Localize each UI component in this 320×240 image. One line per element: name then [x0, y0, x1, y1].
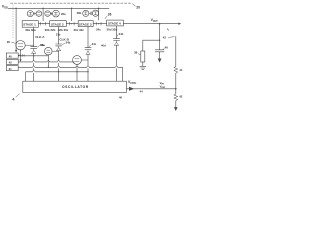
- svg-text:20: 20: [136, 5, 140, 9]
- node VDD label: [2, 5, 8, 10]
- svg-text:40: 40: [9, 54, 13, 58]
- svg-text:OSCILLATOR: OSCILLATOR: [62, 85, 89, 89]
- label VFB: [160, 81, 165, 86]
- label 42: [179, 95, 183, 99]
- arrowhead VOUT: [178, 23, 181, 25]
- label 34c: [92, 42, 97, 46]
- stage box 3: [78, 21, 93, 27]
- clock bus A: [18, 55, 48, 57]
- svg-text:26: 26: [7, 40, 11, 44]
- ground arrow load: [174, 107, 178, 111]
- leader to reference 20: [132, 4, 135, 7]
- capacitor C34b: [56, 44, 62, 46]
- clock driver box 25: [6, 66, 18, 71]
- arrowhead into box 22: [15, 50, 17, 53]
- wire stage2-stage3: [66, 23, 78, 25]
- svg-text:31a: 31a: [40, 43, 45, 47]
- svg-text:21: 21: [9, 67, 13, 71]
- svg-text:34d: 34d: [119, 32, 124, 36]
- stage box 1: [22, 21, 38, 28]
- svg-text:31b: 31b: [56, 33, 61, 37]
- capacitor C34c: [85, 48, 91, 50]
- svg-text:30c 32c: 30c 32c: [74, 28, 85, 32]
- svg-text:STAGE 2: STAGE 2: [51, 22, 64, 26]
- labels under stage boxes: [25, 28, 117, 33]
- label CLK B: [59, 38, 69, 42]
- svg-text:34c: 34c: [92, 42, 97, 46]
- junction on VDD rail x43: [42, 8, 43, 9]
- wire stage3-stage4: [93, 23, 106, 25]
- clock driver box 22: [6, 53, 18, 58]
- svg-text:VCTRL: VCTRL: [128, 80, 137, 85]
- capacitor C34d: [114, 39, 120, 41]
- wire circle 26c to C34c node: [81, 59, 88, 61]
- capacitor C40: [155, 50, 164, 52]
- wire stage1-stage2: [38, 23, 49, 25]
- svg-text:iL: iL: [167, 27, 170, 32]
- feedback line VCTRL: [126, 88, 175, 90]
- capacitor C34a stem: [33, 27, 35, 47]
- svg-text:4: 4: [12, 97, 15, 102]
- svg-text:28a: 28a: [61, 12, 66, 16]
- label 34d: [119, 32, 124, 36]
- label 40 with leader: [165, 45, 169, 49]
- inter-stage node symbols gap3: [96, 22, 101, 25]
- label 40d: [101, 43, 106, 47]
- label 24: [22, 53, 26, 57]
- clock bus C with hops: [18, 67, 122, 81]
- svg-text:34b: 34b: [66, 40, 71, 44]
- inter-stage node symbols gap2: [69, 22, 74, 25]
- stage box 2: [50, 21, 67, 27]
- label 46 under oscillator: [119, 96, 122, 100]
- label VOUT: [151, 18, 159, 23]
- node vertical between stage1/stage2: [42, 8, 44, 20]
- label CLK A: [35, 35, 45, 39]
- label 36 with leader: [108, 13, 112, 17]
- plus joint pair 1: [34, 13, 36, 15]
- junction on VDD rail x16: [15, 8, 16, 9]
- label 41: [179, 68, 183, 72]
- svg-text:VOUT: VOUT: [151, 18, 159, 23]
- svg-text:24: 24: [22, 53, 26, 57]
- label 31b: [56, 33, 61, 37]
- label 38 with leader: [134, 51, 138, 55]
- arrowhead on feedback line: [129, 87, 134, 91]
- gate symbol between pair 2: [89, 12, 92, 15]
- label 42 with leader: [163, 36, 167, 40]
- oscillator box: [23, 81, 127, 92]
- load divider vertical wire: [175, 36, 177, 66]
- transistor circle 28a-4: [53, 10, 60, 17]
- svg-text:40d: 40d: [101, 43, 106, 47]
- capacitor C34b stem: [58, 27, 60, 45]
- junction on VDD rail x71.7: [71, 8, 72, 9]
- svg-text:30b 32b: 30b 32b: [45, 28, 56, 32]
- wire circle 26b to C34b node: [52, 50, 59, 52]
- wire R38 to ground: [142, 62, 144, 66]
- transistor circle 28a-3: [45, 11, 51, 17]
- label iL: [167, 27, 170, 32]
- junction on VDD rail x98.6: [98, 8, 99, 9]
- junction to R38 branch: [159, 40, 160, 41]
- svg-text:41: 41: [179, 68, 183, 72]
- wire R42 to ground: [175, 101, 177, 108]
- svg-text:30a 32a: 30a 32a: [25, 28, 36, 32]
- driver circle 26b: [45, 47, 53, 55]
- label VCTRL: [128, 80, 137, 85]
- transistor circle 28b-2: [92, 10, 98, 16]
- clock bus D with hop: [26, 72, 88, 81]
- wire C34b down to bus D and oscillator with hops: [58, 51, 60, 82]
- svg-text:36: 36: [108, 13, 112, 17]
- label 28a: [61, 12, 66, 16]
- svg-text:STAGE 4: STAGE 4: [108, 22, 121, 26]
- driver circle 26a: [16, 41, 25, 50]
- wire VDD drop to clock driver box 1: [15, 8, 17, 50]
- plus joint pair 1b: [51, 13, 53, 15]
- figure numeral 4 with leader: [12, 97, 15, 102]
- resistor R42 zigzag: [174, 94, 178, 101]
- capacitor C34d stem: [116, 26, 118, 39]
- dotted chip boundary left: [12, 5, 14, 39]
- wire C40 to ground arrow: [159, 52, 161, 59]
- svg-text:28b: 28b: [77, 11, 82, 15]
- transistor circle 28a-2: [36, 11, 42, 17]
- wire VDD rail: [8, 7, 109, 9]
- arrowhead onto bus B: [19, 59, 21, 61]
- svg-text:VDD: VDD: [2, 5, 8, 10]
- svg-text:STAGE 3: STAGE 3: [79, 22, 92, 26]
- label 20: [136, 5, 140, 9]
- svg-text:44: 44: [140, 89, 143, 93]
- wire C34c down to bus D: [87, 54, 89, 81]
- wire VOUT from stage4: [123, 23, 179, 25]
- wire circle 26b down to bus C: [47, 55, 49, 68]
- stage box 4: [107, 20, 124, 26]
- ground arrow C40: [158, 59, 162, 63]
- wire circle 26a down: [20, 50, 22, 60]
- ground R38: [140, 66, 146, 69]
- junction VOUT node: [159, 23, 161, 25]
- svg-text:42: 42: [163, 36, 167, 40]
- label 44: [140, 89, 143, 93]
- label 28b: [77, 11, 82, 15]
- wire branch to R38: [143, 40, 160, 51]
- capacitor C34c stem: [87, 27, 89, 48]
- label 34a: [40, 43, 45, 47]
- inter-stage node symbols gap1: [41, 22, 46, 25]
- wire circle 26c down to bus D: [76, 64, 78, 81]
- wire circle 26a to C34a node: [25, 44, 34, 46]
- svg-text:42: 42: [179, 95, 183, 99]
- node vertical between stage2/stage3: [71, 8, 73, 20]
- wire VOUT node down to C40: [159, 24, 161, 50]
- svg-text:CLK A: CLK A: [35, 35, 45, 39]
- svg-text:STAGE 1: STAGE 1: [23, 23, 36, 27]
- capacitor C34a: [31, 47, 37, 49]
- dashed chip boundary top: [11, 2, 133, 4]
- label 26 with leader: [7, 40, 11, 44]
- svg-text:40: 40: [165, 45, 169, 49]
- clock driver box 23: [6, 59, 18, 64]
- transistor circle 28a-1: [27, 11, 33, 17]
- transistor circle 28b-1: [83, 10, 89, 16]
- svg-text:32b 30c: 32b 30c: [58, 28, 69, 32]
- driver circle 26c: [73, 56, 82, 65]
- label VREF: [160, 85, 166, 90]
- svg-text:34c: 34c: [96, 28, 101, 32]
- node vertical between stage3/stage4: [98, 8, 100, 20]
- clock bus B with hops: [18, 61, 74, 63]
- label 31a: [40, 43, 45, 47]
- svg-text:30d 32d: 30d 32d: [107, 28, 118, 32]
- wire C34d down to oscillator with hop over bus C: [116, 45, 118, 81]
- resistor R38 body: [141, 51, 145, 62]
- svg-text:46: 46: [119, 96, 122, 100]
- svg-text:42: 42: [9, 61, 13, 65]
- svg-text:38: 38: [134, 51, 138, 55]
- wire C34a to bus A and down to oscillator with hops: [33, 53, 35, 81]
- resistor R41 zigzag: [174, 67, 178, 74]
- wire R41 to tap: [175, 73, 177, 94]
- label 34b: [66, 40, 71, 44]
